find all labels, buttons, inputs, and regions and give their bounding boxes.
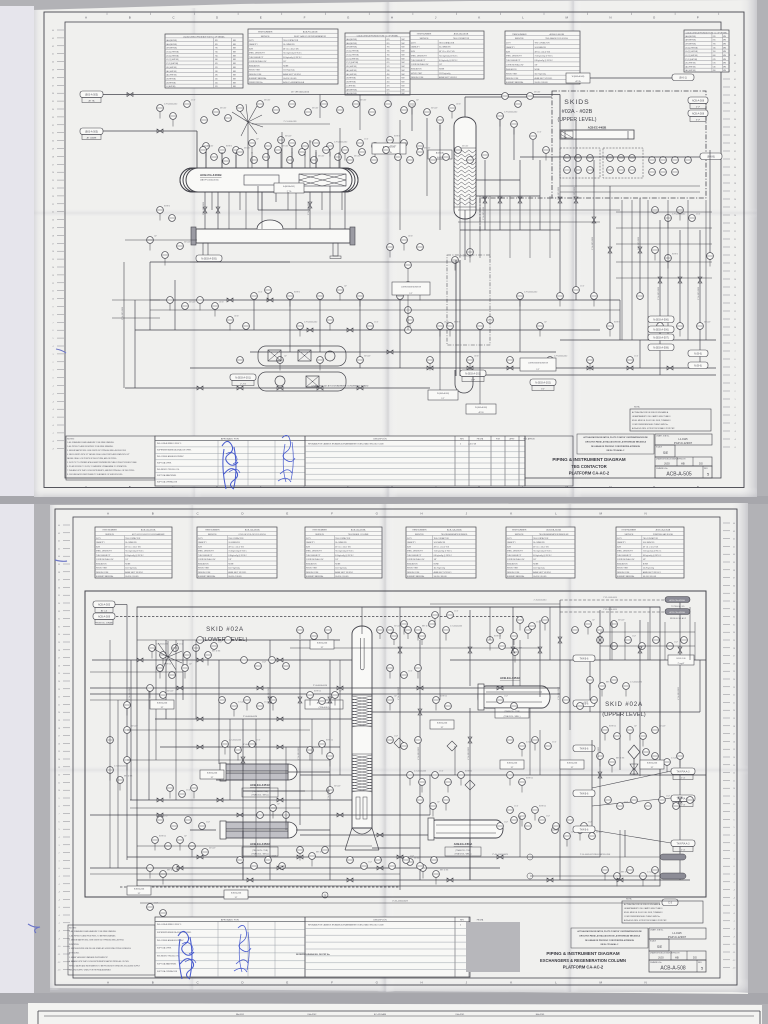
instrument bubble bbox=[607, 323, 614, 330]
instrument bubble bbox=[649, 169, 656, 176]
instrument bubble bbox=[219, 697, 226, 704]
valve bbox=[507, 366, 513, 370]
instrument bubble bbox=[389, 863, 396, 870]
instrument bubble bbox=[507, 807, 514, 814]
wire bbox=[243, 790, 305, 792]
nozzle stem bbox=[205, 152, 207, 168]
valve bbox=[237, 386, 243, 390]
valve bbox=[241, 757, 245, 763]
p2 ruler tick left bbox=[63, 875, 70, 877]
valve bbox=[518, 197, 522, 203]
valve bbox=[377, 866, 383, 870]
p2 ruler tick right bbox=[723, 584, 730, 586]
p2 ruler tick left bbox=[63, 937, 70, 939]
main riser 592 bbox=[591, 740, 593, 830]
ref box p2 bbox=[150, 700, 174, 709]
instrument bubble bbox=[542, 617, 549, 624]
filter C bbox=[306, 376, 319, 387]
ruler tick left bbox=[57, 392, 64, 394]
p2 ruler tick right bbox=[723, 826, 730, 828]
p2 ruler tick right bbox=[723, 928, 730, 930]
dashed gas line b bbox=[560, 611, 664, 613]
p2 ruler tick right bbox=[723, 748, 730, 750]
wire bbox=[160, 746, 340, 748]
instrument bubble bbox=[369, 109, 376, 116]
instrument bubble bbox=[427, 357, 434, 364]
skid inner panel 2 bbox=[603, 148, 643, 178]
instrument bubble bbox=[519, 779, 526, 786]
diamond symbol 2 bbox=[447, 741, 457, 751]
instrument bubble bbox=[672, 169, 679, 176]
instrument bubble bbox=[639, 643, 646, 650]
instrument bubble bbox=[165, 843, 172, 850]
instrument bubble bbox=[681, 637, 688, 644]
instrument bubble bbox=[283, 812, 290, 819]
instrument stem bbox=[311, 859, 313, 866]
right top riser bbox=[624, 622, 626, 660]
p2 ruler tick left bbox=[63, 891, 70, 893]
page 1 inner border bbox=[65, 22, 721, 478]
ruler tick right bbox=[723, 102, 730, 104]
instrument bubble bbox=[664, 759, 671, 766]
p2 ruler tick right bbox=[723, 662, 730, 664]
instrument stem bbox=[435, 703, 437, 710]
wire bbox=[127, 856, 600, 858]
instrument stem bbox=[409, 323, 411, 330]
valve bbox=[417, 686, 423, 690]
instrument bubble bbox=[405, 327, 412, 334]
wire bbox=[126, 605, 128, 861]
page 3 sheet sliver bbox=[28, 1003, 762, 1024]
instrument stem bbox=[339, 293, 341, 300]
exchanger ACB-EA-4452A bbox=[220, 821, 297, 856]
instrument stem bbox=[654, 873, 656, 880]
instrument bubble bbox=[387, 665, 394, 672]
instrument stem bbox=[389, 671, 391, 678]
instrument bubble bbox=[297, 847, 304, 854]
wire bbox=[593, 160, 595, 300]
valve bbox=[297, 855, 303, 859]
instrument stem bbox=[417, 633, 419, 640]
instrument bubble bbox=[401, 743, 408, 750]
instrument bubble bbox=[567, 817, 574, 824]
valve bbox=[298, 697, 302, 703]
wire bbox=[639, 620, 641, 776]
instrument bubble bbox=[467, 357, 474, 364]
filter skid loop 1 bbox=[258, 346, 346, 366]
valve bbox=[427, 366, 433, 370]
instrument stem bbox=[221, 153, 223, 160]
p2 ruler tick left bbox=[63, 766, 70, 768]
ruler tick left bbox=[57, 132, 64, 134]
inter drop d bbox=[295, 192, 297, 229]
wire bbox=[499, 120, 501, 160]
control loop boundary bbox=[447, 255, 490, 345]
valve bbox=[347, 328, 353, 332]
connector bottom left bbox=[230, 374, 256, 386]
p2 ruler tick right bbox=[723, 772, 730, 774]
instrument bubble bbox=[147, 237, 154, 244]
instrument stem bbox=[579, 833, 581, 840]
downcomer a bbox=[455, 260, 457, 376]
instrument bubble bbox=[497, 627, 504, 634]
wire bbox=[372, 711, 700, 713]
wire bbox=[267, 150, 269, 168]
p2 ruler tick right bbox=[723, 959, 730, 961]
run 210 bbox=[458, 209, 620, 211]
connector right 768 bbox=[671, 768, 695, 780]
wire bbox=[150, 261, 290, 263]
p2 ruler tick left bbox=[63, 641, 70, 643]
ruler tick left bbox=[57, 61, 64, 63]
instrument bubble bbox=[249, 741, 256, 748]
grid run bbox=[175, 640, 177, 800]
valve bbox=[483, 197, 487, 203]
skid wire 2 bbox=[560, 191, 700, 193]
valve bbox=[203, 207, 207, 213]
page 2 outer border bbox=[55, 509, 737, 985]
p2 ruler tick left bbox=[63, 735, 70, 737]
instrument bubble bbox=[614, 733, 621, 740]
ruler tick left bbox=[57, 274, 64, 276]
instrument stem bbox=[611, 765, 613, 772]
overhead line bbox=[465, 96, 552, 98]
instrument stem bbox=[154, 843, 156, 850]
instrument bubble bbox=[395, 154, 402, 161]
instrument bubble bbox=[672, 157, 679, 164]
instrument stem bbox=[126, 763, 128, 770]
ruler tick right bbox=[723, 182, 730, 184]
dark pill a bbox=[660, 854, 686, 860]
p2 ruler tick left bbox=[63, 586, 70, 588]
instrument bubble bbox=[319, 741, 326, 748]
instrument stem bbox=[233, 709, 235, 716]
connector mid 700 bbox=[573, 700, 595, 707]
instrument stem bbox=[435, 877, 437, 884]
instrument bubble bbox=[407, 317, 414, 324]
ref box p2 bbox=[560, 760, 584, 769]
ref box p2 bbox=[430, 720, 454, 729]
PSV stem bbox=[633, 759, 635, 775]
wire bbox=[300, 834, 428, 836]
wire bbox=[450, 659, 706, 661]
instrument bubble bbox=[617, 803, 624, 810]
instrument bubble bbox=[609, 759, 616, 766]
p2 ruler tick left bbox=[63, 680, 70, 682]
ruler tick right bbox=[723, 342, 730, 344]
p2 ruler tick left bbox=[63, 602, 70, 604]
wire bbox=[484, 160, 486, 230]
instrument stem bbox=[186, 658, 188, 665]
p2 ruler tick left bbox=[63, 867, 70, 869]
instrument stem bbox=[151, 651, 153, 658]
p2 ruler tick left bbox=[63, 774, 70, 776]
p2 ruler tick right bbox=[723, 943, 730, 945]
p2 ruler tick right bbox=[723, 530, 730, 532]
right run bbox=[616, 277, 712, 279]
instrument bubble bbox=[387, 137, 394, 144]
instrument bubble bbox=[124, 702, 131, 709]
instrument bubble bbox=[235, 747, 242, 754]
p1 title job box bbox=[655, 434, 712, 445]
instrument bubble bbox=[203, 143, 210, 150]
p2 ruler tick left bbox=[63, 961, 70, 963]
instrument bubble bbox=[357, 357, 364, 364]
gap stem bbox=[407, 633, 409, 639]
nozzle stem bbox=[251, 152, 253, 168]
left run 318 bbox=[112, 317, 160, 319]
drop 427 bbox=[426, 140, 428, 196]
wire bbox=[619, 300, 621, 340]
grid run bbox=[242, 830, 244, 880]
valve bbox=[277, 658, 283, 662]
instrument bubble bbox=[497, 823, 504, 830]
gap stem bbox=[421, 639, 423, 645]
instrument stem bbox=[237, 753, 239, 760]
notes block p2 bbox=[68, 925, 155, 975]
instrument stem bbox=[162, 877, 164, 884]
ruler tick left bbox=[57, 321, 64, 323]
page 2 right edge shade bbox=[728, 503, 748, 993]
connector CA-4450A b bbox=[665, 609, 690, 621]
run 240 bbox=[125, 239, 197, 241]
instrument bubble bbox=[147, 865, 154, 872]
instrument stem bbox=[434, 618, 436, 625]
connector right 5 bbox=[688, 362, 708, 369]
gap stem bbox=[393, 639, 395, 645]
instrument bubble bbox=[182, 303, 189, 310]
instrument bubble bbox=[417, 149, 424, 156]
instrument bubble bbox=[317, 357, 324, 364]
instrument bubble bbox=[124, 757, 131, 764]
instrument stem bbox=[359, 299, 361, 306]
column ACB-DA-4401B TEG contactor bbox=[428, 97, 476, 219]
right run bbox=[616, 261, 712, 263]
instrument stem bbox=[169, 303, 171, 310]
instrument bubble bbox=[278, 137, 285, 144]
svg-text:DA-4201: DA-4201 bbox=[456, 1013, 465, 1016]
wire bbox=[479, 330, 481, 368]
grid run bbox=[569, 660, 571, 730]
instrument bubble bbox=[417, 287, 424, 294]
connector bottom mid bbox=[460, 370, 486, 382]
connector mid 745 bbox=[573, 745, 595, 752]
valve bbox=[558, 637, 562, 643]
ruler tick left bbox=[57, 116, 64, 118]
instrument stem bbox=[321, 747, 323, 754]
ruler tick right bbox=[723, 398, 730, 400]
instrument bubble bbox=[627, 727, 634, 734]
instrument stem bbox=[439, 123, 441, 130]
connector CA-4450A bbox=[665, 597, 690, 609]
p2 spec table ACB-CA-4453A bbox=[305, 527, 382, 578]
ruler tick left bbox=[57, 234, 64, 236]
ref box p2 bbox=[310, 640, 334, 649]
p2 ruler tick right bbox=[723, 694, 730, 696]
instrument stem bbox=[205, 149, 207, 156]
instrument bubble bbox=[502, 93, 509, 100]
instrument bubble bbox=[332, 692, 339, 699]
valve bbox=[467, 366, 473, 370]
instrument bubble bbox=[401, 140, 408, 147]
p2 title scale box bbox=[649, 939, 669, 951]
valve bbox=[197, 745, 203, 749]
ruler tick left bbox=[57, 440, 64, 442]
instrument bubble bbox=[415, 627, 422, 634]
stub w2 bbox=[479, 368, 481, 404]
p2 spec table ACB-CA-4402A bbox=[406, 527, 476, 578]
ruler tick left bbox=[57, 148, 64, 150]
page left edge shade bbox=[34, 10, 44, 497]
instrument bubble bbox=[640, 733, 647, 740]
instrument bubble bbox=[107, 767, 114, 774]
wire bbox=[309, 192, 311, 229]
ruler tick left bbox=[57, 45, 64, 47]
ref box a bbox=[372, 143, 406, 154]
wire bbox=[90, 814, 430, 816]
instrument stem bbox=[469, 363, 471, 370]
p2 ruler tick right bbox=[723, 717, 730, 719]
item circle 75 bbox=[322, 892, 328, 898]
instrument bubble bbox=[297, 627, 304, 634]
valve bbox=[617, 878, 623, 882]
instrument stem bbox=[299, 853, 301, 860]
drop 282 bbox=[281, 132, 283, 168]
instrument bubble bbox=[405, 282, 412, 289]
instrument bubble bbox=[687, 797, 694, 804]
valve bbox=[127, 93, 133, 97]
instrument bubble bbox=[257, 101, 264, 108]
instrument bubble bbox=[197, 637, 204, 644]
instrument stem bbox=[389, 143, 391, 150]
wire bbox=[253, 300, 255, 330]
blue pen mark p2 bbox=[55, 560, 67, 561]
p2 ruler tick left bbox=[63, 953, 70, 955]
p2 ruler tick left bbox=[63, 618, 70, 620]
regen line a bbox=[530, 856, 660, 858]
instrument bubble bbox=[539, 817, 546, 824]
inter-page shadow band bbox=[0, 496, 768, 504]
grid run bbox=[285, 747, 287, 830]
valve bbox=[698, 277, 702, 283]
instrument bubble bbox=[611, 677, 618, 684]
gap stem bbox=[499, 633, 501, 639]
instrument stem bbox=[109, 773, 111, 780]
page 2 bottom shadow band bbox=[0, 993, 768, 1004]
nozzle stem bbox=[280, 152, 282, 168]
filter ACB-FD-4401B bbox=[298, 350, 311, 361]
valve bbox=[197, 855, 203, 859]
fold crease vertical bbox=[380, 2, 398, 497]
instrument bubble bbox=[307, 747, 314, 754]
instrument bubble bbox=[511, 633, 518, 640]
left run 300 bbox=[112, 299, 160, 301]
ruler tick right bbox=[723, 430, 730, 432]
valve bbox=[307, 328, 313, 332]
p2 ruler tick right bbox=[723, 881, 730, 883]
exchanger ACB-EA-4451A bbox=[220, 763, 297, 797]
right riser bbox=[687, 200, 689, 340]
instrument bubble bbox=[347, 157, 354, 164]
instrument bubble bbox=[519, 813, 526, 820]
grid run bbox=[229, 719, 231, 800]
ruler tick right bbox=[723, 142, 730, 144]
instrument bubble bbox=[424, 109, 431, 116]
instrument bubble bbox=[657, 323, 664, 330]
comb drop bbox=[469, 196, 471, 258]
instrument bubble bbox=[231, 703, 238, 710]
ruler tick right bbox=[723, 438, 730, 440]
grid run bbox=[429, 775, 431, 815]
instrument bubble bbox=[299, 149, 306, 156]
wire bbox=[221, 160, 223, 168]
instrument bubble bbox=[507, 357, 514, 364]
connector ACB-A-508 b bbox=[688, 110, 708, 122]
instrument bubble bbox=[649, 157, 656, 164]
wire bbox=[137, 879, 690, 881]
grid run bbox=[311, 719, 313, 800]
instrument bubble bbox=[171, 823, 178, 830]
p2 ruler tick left bbox=[63, 547, 70, 549]
instrument bubble bbox=[665, 255, 672, 262]
comb drop bbox=[489, 196, 491, 258]
ruler tick right bbox=[723, 382, 730, 384]
wire bbox=[575, 120, 577, 300]
wire bbox=[679, 600, 681, 880]
instrument bubble bbox=[660, 157, 667, 164]
p2 ruler tick left bbox=[63, 883, 70, 885]
instrument bubble bbox=[591, 697, 598, 704]
connector mid 826 bbox=[573, 826, 595, 833]
p2 ruler tick right bbox=[723, 725, 730, 727]
p2 ruler tick right bbox=[723, 779, 730, 781]
instrument stem bbox=[169, 791, 171, 798]
grid run bbox=[127, 759, 330, 761]
instrument stem bbox=[566, 839, 568, 846]
instrument bubble bbox=[383, 147, 390, 154]
connector B03-A-505 bbox=[80, 91, 103, 103]
skid boundary SKIDS #02A-#02B (UPPER LEVEL) bbox=[552, 91, 706, 198]
wire bbox=[242, 719, 244, 880]
grid run bbox=[454, 746, 456, 775]
instrument bubble bbox=[575, 155, 582, 162]
valve bbox=[547, 366, 553, 370]
instrument bubble bbox=[157, 817, 164, 824]
wire bbox=[559, 600, 561, 880]
ruler tick right bbox=[723, 174, 730, 176]
wire bbox=[411, 108, 413, 131]
instrument stem bbox=[679, 329, 681, 336]
instrument bubble bbox=[587, 155, 594, 162]
instrument stem bbox=[460, 778, 462, 785]
ruler tick right bbox=[723, 238, 730, 240]
p2 ruler tick right bbox=[723, 896, 730, 898]
instrument stem bbox=[454, 263, 456, 270]
instrument stem bbox=[447, 785, 449, 792]
instrument bubble bbox=[263, 154, 270, 161]
ruler tick right bbox=[723, 110, 730, 112]
instrument bubble bbox=[357, 140, 364, 147]
right run bbox=[616, 243, 712, 245]
ruler tick left bbox=[57, 100, 64, 102]
wire bbox=[148, 690, 150, 800]
p2 ruler tick left bbox=[63, 524, 70, 526]
valve bbox=[197, 717, 203, 721]
nozzle stem bbox=[304, 152, 306, 168]
grid run bbox=[117, 700, 119, 868]
ruler tick left bbox=[57, 258, 64, 260]
loop stem bbox=[407, 268, 409, 330]
